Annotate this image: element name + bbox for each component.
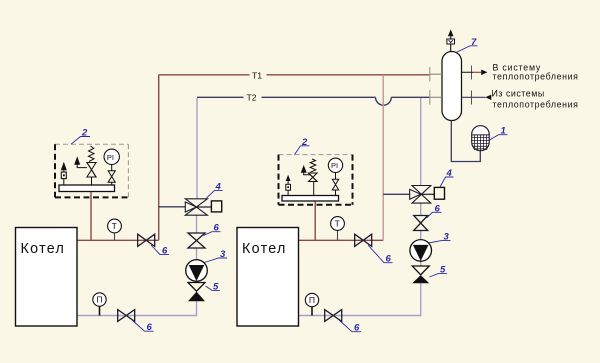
svg-text:5: 5: [440, 264, 446, 275]
valve 6 supply boiler1: [138, 234, 169, 256]
manifold bar middle: [282, 196, 339, 202]
svg-text:4: 4: [446, 168, 453, 179]
vessel left flanges: [430, 67, 442, 105]
expansion tank 1: [472, 126, 508, 151]
three-way valve 4 left: [185, 181, 222, 215]
svg-text:Т: Т: [335, 219, 340, 229]
label 2 (left): [71, 128, 90, 145]
pipe T2 header: [197, 97, 430, 105]
wire return branch left: [77, 98, 197, 316]
outlet arrow + box middle group2: [286, 175, 291, 196]
svg-text:2: 2: [81, 128, 88, 139]
check valve 5 left: [188, 281, 220, 301]
svg-text:Т: Т: [112, 221, 117, 231]
svg-text:6: 6: [354, 323, 360, 334]
valve 6 supply boiler2: [355, 234, 393, 265]
svg-text:Котел: Котел: [21, 241, 66, 257]
svg-text:3: 3: [444, 231, 450, 242]
svg-text:7: 7: [471, 37, 477, 48]
wire vessel bottom to tank: [451, 121, 480, 162]
svg-text:2: 2: [301, 137, 308, 148]
svg-text:6: 6: [435, 203, 441, 214]
three-way valve 4 right: [410, 168, 454, 203]
svg-text:PI: PI: [107, 153, 114, 162]
svg-text:Котел: Котел: [242, 241, 287, 257]
manifold bar left: [59, 185, 115, 192]
wire safety group drop 1: [90, 192, 92, 241]
gauge T boiler1: [108, 219, 122, 240]
svg-text:4: 4: [215, 181, 222, 192]
valve 6 pump branch left: [188, 223, 221, 248]
safety group box 2 (left dashed): [55, 144, 128, 197]
pump 3 right: [410, 231, 451, 261]
svg-text:6: 6: [162, 246, 168, 257]
safety valve group1: [75, 146, 96, 185]
svg-text:5: 5: [213, 281, 219, 292]
check valve 5 right: [412, 264, 447, 283]
valve 6 return bottom boiler2: [325, 310, 361, 334]
svg-text:6: 6: [386, 254, 392, 265]
wire supply riser boiler1: [77, 239, 159, 241]
inlet from system (arrow left): [462, 88, 579, 109]
gauge PI group1: [104, 149, 119, 185]
outlet to system (arrow right): [462, 63, 579, 82]
label 2 (middle): [295, 137, 310, 155]
svg-text:T1: T1: [252, 70, 262, 80]
pipe T1 header: [159, 75, 430, 241]
svg-text:Из системы: Из системы: [492, 88, 545, 98]
separator vessel 7: [442, 37, 478, 121]
valve 6 return bottom boiler1: [118, 310, 154, 334]
svg-text:1: 1: [501, 126, 506, 137]
boiler K1: [16, 228, 78, 327]
valve 6 pump branch right: [414, 203, 442, 230]
wire safety group drop 2: [314, 201, 316, 240]
svg-text:3: 3: [220, 249, 226, 260]
svg-text:T2: T2: [247, 93, 257, 103]
gauge P boiler1: [93, 293, 106, 316]
pump 3 left: [186, 249, 227, 281]
wire return branch right: [299, 98, 421, 316]
gauge T boiler2: [331, 217, 345, 241]
svg-text:теплопотребления: теплопотребления: [493, 72, 579, 82]
svg-text:6: 6: [147, 322, 153, 333]
svg-text:PI: PI: [331, 161, 338, 170]
boiler K2: [237, 228, 299, 327]
svg-text:П: П: [96, 295, 102, 305]
svg-text:теплопотребления: теплопотребления: [493, 100, 579, 110]
wire mixing stub right: [383, 193, 410, 195]
wire supply riser boiler2: [299, 239, 384, 241]
svg-text:П: П: [309, 295, 315, 305]
air vent on vessel: [447, 29, 455, 51]
svg-text:6: 6: [214, 223, 220, 234]
gauge P boiler2: [305, 293, 318, 315]
safety group box 2 (middle dashed): [279, 155, 353, 205]
vessel right flanges: [471, 66, 473, 105]
wire mixing stub left: [159, 206, 186, 208]
wire supply vertical x383: [382, 75, 384, 241]
gauge PI group2: [328, 158, 342, 195]
outlet arrow + box left group1: [61, 162, 67, 185]
safety valve group2: [302, 159, 318, 196]
